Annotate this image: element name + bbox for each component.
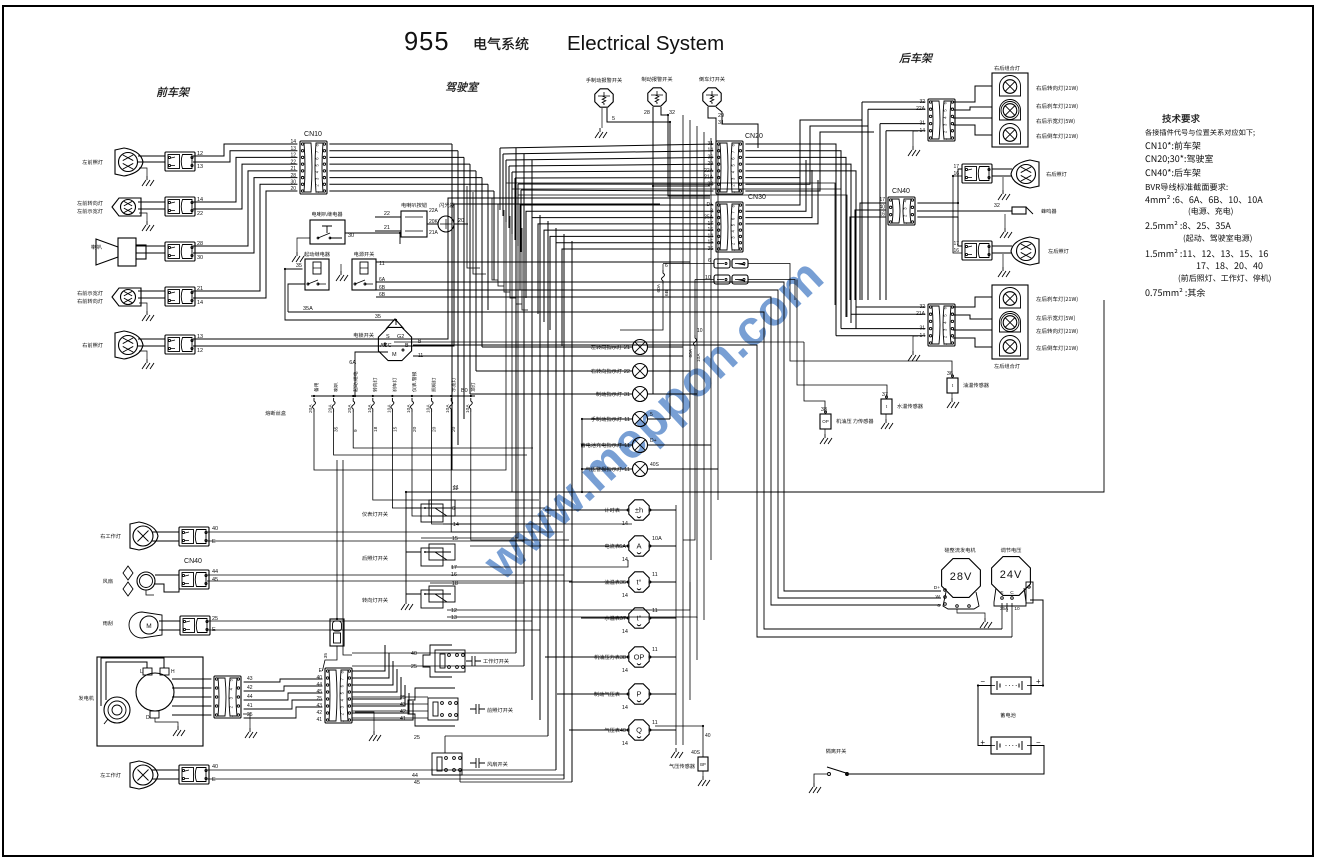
svg-text:43: 43 — [316, 703, 322, 709]
wire fuse35 to CN50 — [322, 646, 337, 671]
wire rear left feed riser 2 — [850, 300, 852, 314]
wire gen conn to CN50 3 — [244, 693, 323, 700]
wire rear right feed riser 5 — [885, 131, 887, 300]
cab switch feed — [405, 492, 407, 600]
wire 左工作灯 a — [152, 769, 179, 771]
svg-text:32: 32 — [994, 203, 1000, 209]
wire centre weave 3 — [492, 198, 498, 280]
wire rear right feed riser 4 — [879, 124, 881, 300]
title 电气系统 — [475, 37, 529, 50]
svg-text:Q: Q — [636, 726, 642, 735]
label 左前照灯 — [82, 160, 102, 165]
svg-text:L: L — [140, 669, 143, 675]
wire gen H loop — [101, 658, 164, 706]
connector CN20 — [716, 141, 743, 194]
wire buzzer 32 — [917, 210, 1012, 212]
junction dot 26 — [1042, 684, 1044, 686]
gauge 气压表 — [629, 720, 649, 740]
lamp 右后照灯 — [1011, 160, 1039, 188]
svg-text:35: 35 — [296, 263, 302, 269]
wire centre weave 6 — [510, 216, 516, 298]
label 电流表 — [605, 544, 620, 549]
wire long h 610 — [447, 582, 690, 610]
svg-text:60A: 60A — [656, 283, 662, 292]
svg-text:35A: 35A — [1000, 606, 1009, 612]
wire long h 617 — [447, 617, 697, 618]
wire long vertical x=697 — [696, 126, 698, 660]
connector cab floor CN50 — [325, 668, 352, 723]
ground generator — [173, 726, 185, 736]
wire CN10 out pin 2 — [329, 150, 458, 152]
label 调节电压 — [1001, 548, 1021, 553]
wire cab upper bus riser 3 — [505, 160, 507, 222]
svg-text:28V: 28V — [950, 571, 973, 583]
svg-text:22: 22 — [624, 369, 630, 375]
wire CN40 feed 3 — [850, 217, 885, 300]
wire gen to pin 4 — [172, 705, 211, 707]
svg-text:6B: 6B — [664, 290, 670, 296]
wire row to CN10 pin 22 — [193, 164, 297, 209]
svg-text:W: W — [935, 594, 940, 600]
wire v2 bottom link 782 — [460, 781, 572, 783]
wire fuse 1 down — [314, 412, 470, 470]
svg-text:6A: 6A — [619, 544, 626, 550]
lamp 左前转向灯 — [112, 198, 141, 216]
wire cab upper bus 3 — [506, 157, 713, 160]
lamp 右前示宽灯 — [112, 288, 141, 306]
wire 35 feed rail — [285, 268, 303, 270]
fuse 20A 起动.继电 — [352, 395, 354, 397]
ground sensor38 — [820, 434, 832, 444]
svg-text:15: 15 — [392, 426, 398, 432]
svg-text:32: 32 — [669, 110, 675, 116]
wire cab upper bus 1 — [500, 144, 713, 148]
wire centre weave 5 — [504, 210, 510, 292]
wire indicator lamp out y=394 — [648, 393, 698, 395]
wire fuse 9 down — [471, 412, 569, 540]
label 制动气压表 — [594, 692, 620, 697]
wire conn to 右后照灯 b — [992, 175, 1012, 177]
junction dot 28 — [399, 232, 401, 234]
wire CN40 to work lamps 2 — [917, 217, 962, 246]
label 电锁开关 — [354, 333, 374, 338]
wire cab upper bus 2 — [503, 151, 713, 154]
svg-text:E: E — [212, 539, 216, 545]
fuse 60A/6B inline — [662, 270, 665, 284]
gauge 制动气压表 — [629, 684, 649, 704]
wire gen to pin 1 — [172, 678, 211, 680]
tech note (电源、充电) — [1189, 207, 1233, 215]
wire row to CN10 pin 28 — [193, 178, 297, 253]
wire horn relay ground — [297, 238, 310, 252]
label 雨刮 — [103, 621, 113, 626]
svg-text:42: 42 — [247, 685, 253, 691]
wire rear left feed riser 1 — [855, 300, 857, 307]
wire to indicator lamp y=371 — [476, 370, 633, 372]
svg-text:10: 10 — [1014, 606, 1020, 612]
wire bundle V1 riser 5 — [475, 171, 477, 371]
wire main bus H1 5 corner — [413, 345, 1012, 637]
wire indicator lamp out y=347 — [648, 346, 684, 348]
wire long vertical x=683 — [682, 115, 684, 745]
svg-text:M: M — [392, 352, 397, 358]
svg-text:24V: 24V — [1000, 569, 1023, 581]
svg-text:41: 41 — [400, 716, 406, 722]
wire conn to 左后照灯 b — [992, 252, 1012, 254]
pressure switch 倒车灯开关 — [703, 88, 721, 106]
svg-text:25: 25 — [247, 712, 253, 718]
svg-text:25: 25 — [414, 735, 420, 741]
wire sensor37 feed — [797, 280, 887, 398]
wire batt2- to switch — [849, 746, 1044, 775]
wire CN30 in 1 — [520, 205, 713, 290]
svg-text:40: 40 — [705, 733, 711, 739]
indicator lamp 制动指示灯 — [633, 387, 648, 402]
wire CN30 in 5 — [544, 230, 713, 322]
wire long vertical x=718 — [717, 144, 719, 500]
wire disconnect to gnd — [814, 774, 827, 783]
svg-text:21: 21 — [624, 345, 630, 351]
svg-text:10A: 10A — [367, 404, 373, 413]
svg-text:CN10: CN10 — [304, 131, 322, 138]
wire 28 to CN20 — [653, 185, 710, 187]
cab sw3 stub — [406, 593, 421, 595]
wire device-connector row 207 a — [138, 201, 165, 203]
wire CN10 out pin 5 — [329, 170, 476, 172]
wire CN20 out 3 — [745, 157, 846, 317]
wire gen conn to CN50 2 — [244, 686, 323, 691]
wire 右后照灯 gnd — [1002, 177, 1004, 190]
wire 40 sender drop — [655, 726, 703, 757]
svg-text:10A: 10A — [445, 404, 451, 413]
backup buzzer 蜂鸣器 — [1012, 207, 1026, 214]
label 左前示宽灯 — [77, 209, 103, 214]
label 左后倒车灯(21W) — [1036, 345, 1077, 351]
svg-text:35: 35 — [375, 314, 381, 320]
tech note 技术要求 — [1162, 114, 1199, 123]
svg-text:11: 11 — [652, 572, 658, 578]
wire lamp feed rail — [581, 419, 583, 492]
wire CN30 in 2 — [526, 211, 713, 298]
label 右前示宽灯 — [77, 291, 103, 296]
svg-text:6: 6 — [452, 506, 455, 512]
wire to rear left conn pin 4 — [841, 328, 925, 330]
svg-text:40S: 40S — [650, 462, 660, 468]
label 机油压力传感器 — [836, 419, 873, 424]
label 气压表 — [605, 728, 620, 733]
wire device-connector row 297 b — [138, 297, 165, 299]
wire CN40 feed — [860, 203, 885, 300]
pressure switch 手制动报警开关 — [595, 89, 613, 107]
label 工作灯开关 — [483, 659, 509, 664]
tech note (起动、驾驶室电源) — [1184, 234, 1252, 242]
svg-text:40: 40 — [411, 651, 417, 657]
label 水温表 — [605, 616, 620, 621]
wire bundle V1 riser 8 — [493, 191, 495, 280]
wire gen conn to CN50 1 — [244, 679, 323, 682]
svg-text:18: 18 — [373, 426, 379, 432]
wire cluster RR 2 — [953, 107, 992, 110]
fuse name 喇叭 — [334, 383, 338, 392]
wire centre weave 1 — [467, 186, 480, 268]
wire 风扇 a — [155, 574, 179, 576]
wire pair6 left — [663, 263, 714, 265]
svg-text:H: H — [171, 669, 175, 675]
junction dot 1 — [354, 395, 356, 397]
ground 右后照灯 — [998, 190, 1010, 200]
wire main bus 11 relay — [376, 261, 690, 263]
lamp 左工作灯 — [130, 761, 158, 789]
ground gauges — [671, 748, 683, 758]
junction dot 10 — [470, 395, 472, 397]
wire CN50 out 8 — [352, 701, 413, 720]
wire rear right conn ground — [913, 131, 918, 146]
ground disconnect switch — [809, 783, 821, 793]
svg-text:43: 43 — [247, 676, 253, 682]
label 右后照灯 — [1046, 172, 1066, 177]
wire row to CN10 pin 12 — [193, 157, 297, 202]
svg-text:20A: 20A — [347, 404, 353, 413]
wire long vertical x=711 — [710, 138, 712, 560]
wire centre weave 4 — [498, 204, 504, 286]
wire 制动报警开关 32 — [661, 107, 710, 196]
rear lamp cluster 左后组合灯 — [992, 285, 1028, 359]
ground buzzer — [1000, 228, 1012, 238]
wire cab upper bus 5 — [512, 171, 713, 172]
svg-text:−: − — [980, 677, 985, 686]
wire indicator lamp out y=419 — [648, 418, 671, 420]
connector pair row y=252 — [165, 242, 195, 261]
wire 右工作灯 40 — [207, 531, 516, 533]
wire pair10 right — [748, 280, 795, 301]
relay 电喇叭继电器 — [310, 220, 345, 244]
wire device-connector row 345 a — [138, 338, 165, 340]
svg-text:30: 30 — [197, 255, 203, 261]
label 左后转向灯(21W) — [1036, 328, 1077, 334]
flasher relay 转向闪光器 — [401, 211, 427, 237]
wire gauge out 1 — [650, 509, 676, 511]
svg-text:11: 11 — [624, 467, 630, 473]
wire 工作灯开关 25 — [352, 665, 430, 667]
svg-text:30: 30 — [348, 233, 354, 239]
svg-text:44: 44 — [247, 694, 253, 700]
wire ground 左前照灯 — [139, 168, 147, 176]
wire 前照灯开关 41 — [352, 717, 428, 719]
label 右后刹车灯(21W) — [1036, 103, 1077, 109]
junction dot 18 — [669, 121, 671, 123]
wire CN30 in 7 — [556, 243, 713, 338]
wire conn to 右后照灯 a — [992, 168, 1012, 170]
wire cluster RL 3 — [953, 329, 992, 331]
wire long h 567 — [451, 560, 628, 567]
wire cluster RR 4 — [953, 125, 992, 135]
label 后照灯开关 — [362, 556, 388, 561]
fuse name 起动.继电 — [353, 372, 357, 392]
ground 左后照灯 — [998, 267, 1010, 277]
wire CN50 out 6 — [352, 685, 405, 706]
wire gauge out 3 — [650, 581, 676, 583]
junction dot 27 — [336, 618, 338, 620]
wire work lamp 16 link2 — [953, 176, 962, 253]
wire long vertical x=690 — [689, 120, 691, 700]
connector pair 6 — [714, 259, 730, 268]
gauge 计时表 — [629, 500, 649, 520]
ground rear left connector — [908, 351, 920, 361]
svg-text:t°: t° — [636, 578, 641, 587]
connector pair 左工作灯 — [179, 765, 209, 784]
flasher 闪光器 — [438, 216, 454, 232]
wire to indicator lamp y=419 — [582, 418, 633, 420]
wire 左工作灯 40b — [207, 769, 556, 771]
svg-text:40: 40 — [620, 728, 626, 734]
svg-text:44: 44 — [412, 773, 418, 779]
wire bundle V2 8 — [571, 241, 573, 782]
wire CN30 in 6 — [550, 236, 713, 330]
wire sensor36 gnd — [951, 393, 953, 398]
wire main bus H1 2 corner — [376, 290, 941, 598]
wire CN50 out 5 — [352, 677, 401, 699]
wire cab upper bus riser 2 — [502, 154, 504, 216]
wire batt1+ to regulator 10 — [1030, 600, 1043, 686]
lamp 左后照灯 — [1011, 237, 1039, 265]
svg-text:14: 14 — [622, 629, 628, 635]
label 隔离开关 — [826, 749, 846, 754]
wire relays gnd link — [340, 264, 342, 271]
svg-text:42: 42 — [316, 710, 322, 716]
wire device-connector row 207 b — [138, 208, 165, 210]
wire fuse 6B down — [662, 264, 664, 270]
horn 喇叭 — [118, 238, 136, 266]
label 计时表 — [605, 508, 620, 513]
svg-text:41: 41 — [247, 703, 253, 709]
wire cab upper bus 4 — [509, 164, 713, 166]
label 电喇叭按钮 — [402, 203, 427, 208]
label 右工作灯 — [100, 534, 120, 539]
wire 右前照灯 12 — [193, 204, 660, 346]
junction dot 9 — [450, 395, 452, 397]
wire bundle V2 5 — [547, 221, 549, 736]
pressure switch 制动报警开关 — [648, 88, 666, 106]
svg-text:25: 25 — [411, 664, 417, 670]
relay 起动继电器 — [305, 259, 329, 290]
wire cab upper bus riser 1 — [499, 148, 501, 210]
wire flasher out 20 — [454, 223, 468, 225]
wire cab upper bus riser 6 — [514, 178, 516, 240]
indicator lamp 气压警报指示灯 — [633, 462, 648, 477]
label 右后组合灯 — [994, 66, 1020, 71]
svg-text:10A: 10A — [406, 404, 412, 413]
svg-text:44: 44 — [316, 682, 322, 688]
wire device-connector row 162 a — [138, 155, 165, 157]
label 蓄电池充电指示灯 — [581, 443, 622, 448]
ground generator connector — [245, 728, 257, 738]
wire gauge out 4 — [650, 617, 676, 619]
wire to indicator lamp y=445 — [582, 444, 633, 446]
label 硅整流发电机 — [945, 548, 976, 553]
switch 前照灯开关 — [408, 688, 455, 726]
svg-text:18: 18 — [452, 581, 458, 587]
wire rear right feed riser 2 — [867, 109, 869, 300]
motor 雨刮电机 — [129, 612, 162, 638]
regulator 调节电压 24V — [992, 557, 1031, 596]
fuse name 刹车灯 — [392, 378, 396, 392]
wire gauge feed 5 — [545, 656, 628, 658]
wire 前照灯开关 43 — [352, 703, 428, 705]
label 手制动指示灯 — [591, 417, 622, 422]
wire CN20 out 5 — [745, 171, 856, 329]
wire CN10 out pin 6 — [329, 177, 482, 179]
tech note 各接插件代号与位置关系对 — [1145, 129, 1254, 136]
svg-text:955: 955 — [404, 28, 450, 56]
connector CN40 — [888, 197, 915, 225]
svg-text:+: + — [1036, 677, 1041, 686]
wire centre v a — [470, 190, 506, 470]
indicator lamp 右转向指示灯 — [633, 364, 648, 379]
wire row to CN10 pin 21 — [193, 171, 297, 246]
wire gauge feed 7 — [569, 729, 628, 731]
label 左后刹车灯(21W) — [1036, 296, 1077, 302]
generator coil — [104, 697, 130, 723]
wire CN10 out pin 1 — [329, 143, 452, 145]
svg-text:M: M — [146, 623, 151, 630]
junction dot 14 — [581, 444, 583, 446]
connector rear left — [928, 304, 955, 346]
svg-text:OP: OP — [634, 653, 645, 662]
wire bundle V2 1 — [515, 148, 517, 653]
label 制动报警开关 — [642, 77, 673, 82]
wire CN10 out pin 3 — [329, 156, 464, 158]
wire flasher-lamp — [427, 223, 438, 225]
wire 左工作灯 Eb — [207, 778, 564, 780]
connector pair row y=345 — [165, 335, 195, 354]
fuse 10A 顶灯 — [470, 395, 472, 397]
wire sensor36 feed — [790, 280, 952, 376]
label 风扇 — [103, 579, 113, 584]
label 油温传感器 — [963, 383, 989, 388]
wire conn to 左后照灯 a — [992, 245, 1012, 247]
junction dot 24 — [846, 773, 848, 775]
svg-text:E: E — [212, 777, 216, 783]
ground alternator — [980, 618, 992, 628]
wire gen to pin 2 — [172, 687, 211, 689]
wire ignition ACC to fuse bus — [355, 352, 388, 396]
wire fuse 3 down — [353, 412, 533, 448]
wire rear left feed riser 4 — [840, 300, 842, 329]
wire CN30 out 3 — [745, 170, 812, 218]
indicator lamp 蓄电池充电指示灯 — [633, 438, 648, 453]
tech note CN10*:前车架 — [1146, 141, 1201, 149]
label 右后示宽灯(5W) — [1036, 118, 1074, 124]
wire fuse6B down — [620, 284, 663, 330]
label 右前照灯 — [82, 343, 102, 348]
wire bundle V2 3 — [531, 160, 533, 700]
svg-text:10A: 10A — [426, 404, 432, 413]
svg-text:20: 20 — [412, 426, 418, 432]
wire pair6 right — [748, 264, 790, 281]
wire fuse 5 down — [392, 412, 545, 508]
wire 风扇开关 25 — [444, 736, 446, 753]
wire ignition feed 35 — [285, 269, 396, 325]
junction dot 13 — [581, 418, 583, 420]
wire CN50 out 7 — [352, 693, 409, 713]
label 左后示宽灯[5W] — [1036, 315, 1074, 321]
wire ground 右前照灯 — [139, 351, 147, 359]
wire gen conn to CN50 5 — [244, 707, 323, 718]
wire cab upper bus riser 5 — [511, 172, 513, 234]
wire 左工作灯 b — [152, 778, 179, 780]
wire long h 492 the 11 bus — [406, 300, 1104, 492]
wire cab upper bus 7 — [518, 183, 713, 185]
